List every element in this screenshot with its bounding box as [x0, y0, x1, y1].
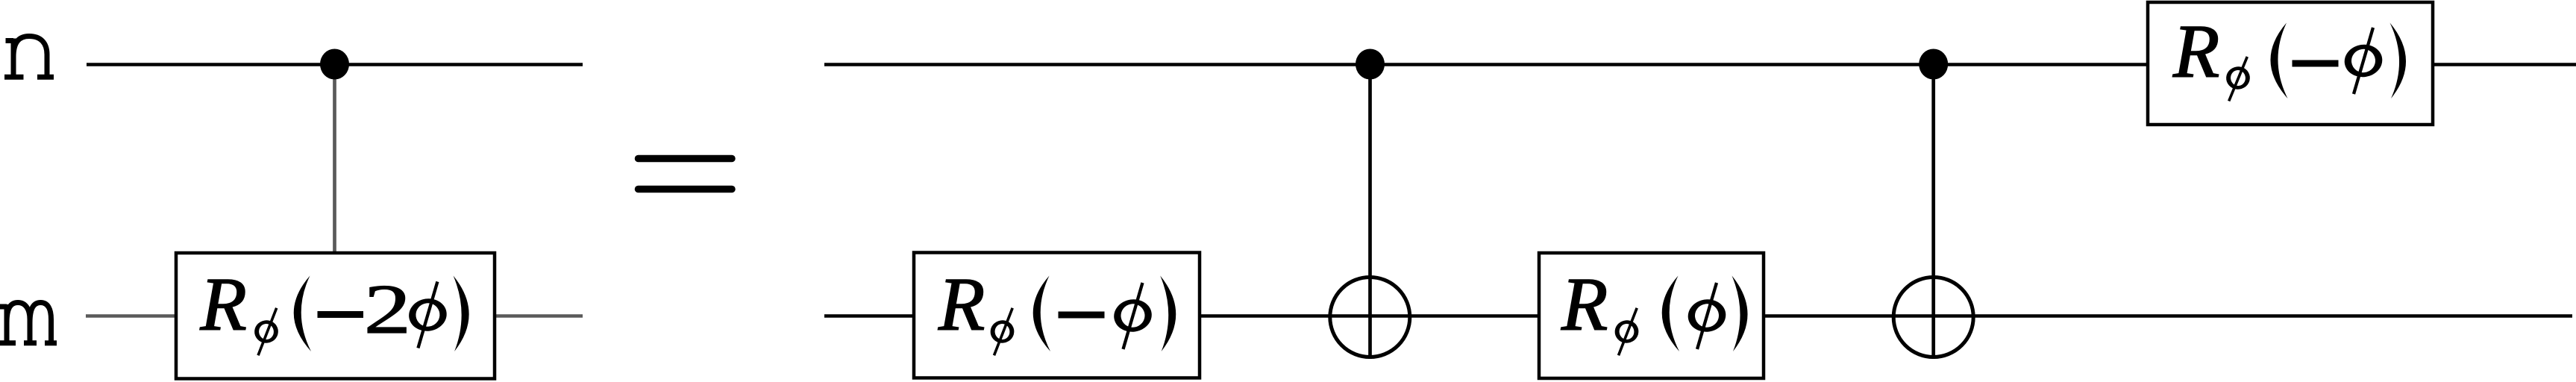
- svg-text:R: R: [938, 263, 985, 347]
- svg-text:R: R: [2172, 10, 2219, 94]
- svg-text:2: 2: [364, 271, 411, 348]
- svg-text:R: R: [1561, 263, 1608, 347]
- svg-text:R: R: [200, 263, 247, 347]
